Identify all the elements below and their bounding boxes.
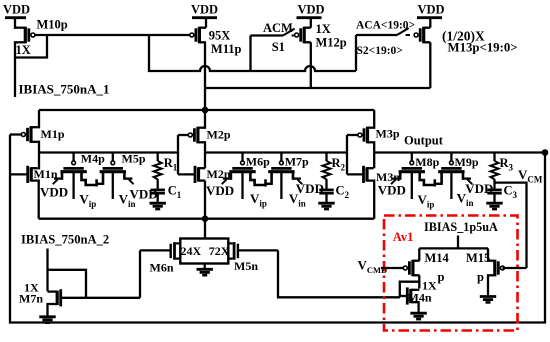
svg-text:M11p: M11p bbox=[211, 42, 242, 56]
svg-text:p: p bbox=[438, 270, 445, 284]
resistor R3 bbox=[491, 153, 514, 180]
transistor M8p (follower, Vip) bbox=[378, 153, 440, 210]
wire top supply rail bbox=[39, 109, 374, 111]
svg-text:1X: 1X bbox=[316, 22, 331, 36]
block Av1 boundary bbox=[384, 216, 518, 331]
transistor M6p (follower, Vip) bbox=[206, 153, 270, 209]
switch S2<19:0> (ACA<19:0>) bbox=[356, 20, 415, 72]
svg-text:IBIAS_750nA_1: IBIAS_750nA_1 bbox=[19, 82, 110, 97]
node V_CM bbox=[495, 167, 543, 268]
svg-text:VDD: VDD bbox=[191, 3, 218, 17]
svg-text:VDD: VDD bbox=[40, 185, 68, 200]
ground (R3C3) bbox=[486, 202, 502, 205]
wire output node bbox=[374, 151, 545, 153]
switch S1 (ACM) bbox=[251, 21, 297, 71]
node IBIAS_750nA_1 bbox=[15, 58, 110, 98]
svg-text:M7p: M7p bbox=[285, 155, 309, 169]
svg-text:M15: M15 bbox=[466, 251, 490, 265]
wire feedback loop (output to input) bbox=[10, 135, 545, 323]
power VDD (M11p) bbox=[191, 3, 218, 18]
svg-text:ACM: ACM bbox=[263, 21, 293, 35]
transistor M3n bbox=[347, 166, 400, 219]
power VDD (M10p) bbox=[3, 3, 30, 18]
transistor M2p bbox=[178, 110, 231, 143]
svg-text:M4n: M4n bbox=[408, 291, 432, 305]
svg-text:M6p: M6p bbox=[246, 155, 270, 169]
wire M2 drain node bbox=[203, 142, 206, 168]
wire tail to current sinks bbox=[204, 219, 206, 240]
node IBIAS_1p5uA bbox=[424, 220, 498, 248]
svg-text:M9p: M9p bbox=[455, 155, 479, 169]
svg-text:S2<19:0>: S2<19:0> bbox=[357, 45, 403, 57]
junction tail rail bbox=[202, 215, 209, 222]
wire M3 drain node bbox=[373, 142, 375, 168]
transistor M5n (72X) bbox=[209, 242, 278, 273]
transistor M5p (follower, Vin) bbox=[96, 152, 157, 209]
transistor M4n (1X, diode-connected) bbox=[400, 279, 437, 313]
power VDD (M12p) bbox=[297, 3, 325, 18]
svg-text:VDD: VDD bbox=[417, 3, 444, 17]
svg-text:Output: Output bbox=[404, 133, 444, 147]
svg-text:M6n: M6n bbox=[150, 261, 174, 275]
ground (M7n) bbox=[39, 315, 55, 318]
junction output-feedback bbox=[542, 149, 549, 156]
wire M5n gate to M4n mirror bbox=[278, 250, 400, 297]
transistor M10p (1X, diode-connected PMOS) bbox=[15, 18, 68, 58]
svg-text:S1: S1 bbox=[272, 40, 285, 54]
svg-text:VDD: VDD bbox=[206, 183, 234, 198]
wire M7n gate to M6n gate bbox=[139, 250, 141, 297]
wire M1 drain node bbox=[38, 142, 39, 168]
svg-text:M3p: M3p bbox=[376, 127, 400, 141]
wire gate bias M10p-M11p bbox=[35, 34, 191, 36]
capacitor C1 bbox=[151, 179, 182, 202]
node stage1 follower tail bbox=[95, 179, 98, 186]
svg-text:M12p: M12p bbox=[316, 36, 347, 50]
transistor M15p bbox=[466, 248, 527, 295]
wire stage2 output bbox=[205, 151, 347, 153]
transistor M9p (follower, Vin) bbox=[435, 153, 493, 208]
svg-text:M8p: M8p bbox=[415, 155, 439, 169]
wire M6n-M5n drain/source frame bbox=[180, 239, 228, 264]
svg-text:VDD: VDD bbox=[3, 3, 30, 17]
svg-text:IBIAS_1p5uA: IBIAS_1p5uA bbox=[424, 220, 498, 234]
wire stage1 output bbox=[39, 151, 178, 153]
ground (M4n) bbox=[410, 312, 426, 315]
wire bias line to switches bbox=[149, 36, 356, 71]
wire M11p drain to main rail bbox=[204, 42, 206, 110]
svg-text:24X: 24X bbox=[181, 244, 202, 258]
transistor M6n (24X) bbox=[140, 242, 202, 274]
node stage3 follower tail bbox=[433, 179, 436, 186]
transistor M1p bbox=[10, 110, 65, 143]
ground (M15) bbox=[480, 295, 496, 298]
svg-text:M7n: M7n bbox=[19, 292, 43, 306]
wire M14-M15 source bar bbox=[419, 247, 488, 249]
resistor R2 bbox=[323, 153, 346, 180]
svg-text:M10p: M10p bbox=[37, 18, 68, 32]
transistor M13p<19:0> ((1/20)X) bbox=[414, 18, 517, 88]
node stage2 follower tail bbox=[264, 179, 267, 186]
capacitor C3 bbox=[487, 179, 517, 202]
ground (tail pair) bbox=[197, 264, 213, 276]
svg-text:VDD: VDD bbox=[297, 3, 324, 17]
svg-text:M4p: M4p bbox=[81, 152, 105, 166]
transistor M12p (1X) bbox=[295, 18, 347, 88]
node IBIAS_750nA_2 bbox=[21, 233, 109, 292]
svg-text:72X: 72X bbox=[209, 244, 230, 258]
transistor M11p (95X) bbox=[190, 18, 242, 56]
ground (R2C2) bbox=[318, 202, 334, 205]
svg-text:M5n: M5n bbox=[234, 259, 258, 273]
svg-text:M1p: M1p bbox=[41, 127, 65, 141]
transistor M7n (1X, diode-connected) bbox=[19, 270, 140, 316]
node V_CMD bbox=[358, 258, 399, 275]
svg-text:VDD: VDD bbox=[378, 183, 406, 198]
svg-text:M13p<19:0>: M13p<19:0> bbox=[448, 41, 518, 55]
wire stage2 gate bbox=[177, 135, 179, 174]
transistor M3p bbox=[347, 110, 400, 143]
svg-text:Av1: Av1 bbox=[393, 230, 414, 244]
resistor R1 bbox=[154, 153, 178, 180]
svg-text:M2p: M2p bbox=[207, 128, 231, 142]
transistor M1n bbox=[10, 166, 58, 219]
transistor M7p (follower, Vin) bbox=[265, 153, 324, 209]
svg-text:p: p bbox=[477, 270, 484, 284]
svg-text:IBIAS_750nA_2: IBIAS_750nA_2 bbox=[21, 233, 109, 247]
transistor M14p bbox=[398, 248, 449, 288]
wire bottom tail rail bbox=[39, 218, 375, 220]
transistor M4p (follower, Vip) bbox=[40, 152, 105, 209]
svg-text:ACA<19:0>: ACA<19:0> bbox=[356, 20, 415, 32]
junction top rail bbox=[202, 107, 209, 114]
svg-text:1X: 1X bbox=[16, 43, 31, 57]
ground (R1C1) bbox=[150, 202, 166, 205]
svg-text:M5p: M5p bbox=[122, 152, 146, 166]
wire stage3 gate bbox=[346, 135, 348, 174]
wire drain bus M11p-M12p-M13p bbox=[205, 87, 430, 89]
svg-text:M14: M14 bbox=[425, 251, 450, 265]
svg-text:95X: 95X bbox=[209, 29, 231, 43]
capacitor C2 bbox=[319, 179, 349, 202]
power VDD (M13p) bbox=[417, 3, 445, 18]
transistor M2n bbox=[178, 166, 231, 219]
